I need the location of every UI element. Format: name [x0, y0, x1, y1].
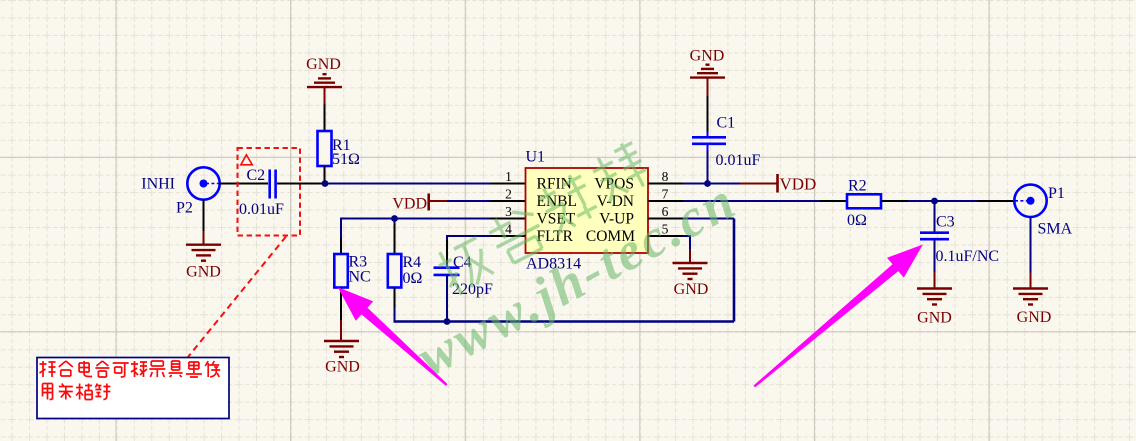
note text line1 char 3	[79, 361, 92, 377]
junction at R1 / C2 node	[322, 180, 329, 187]
svg-text:0.01uF: 0.01uF	[716, 152, 761, 169]
U1 pin number 6	[662, 204, 669, 219]
U1 pin number 2	[505, 186, 512, 201]
U1 pin number 1	[505, 169, 512, 184]
wire VPOS net	[683, 183, 740, 185]
ground GND under P1	[1013, 289, 1048, 305]
R4 value label 0ohm	[403, 270, 423, 287]
note text line1 char 7	[149, 361, 165, 377]
U1 designator label	[526, 149, 546, 166]
ground GND under P2	[186, 245, 221, 261]
callout arrow pointing at C3	[754, 245, 923, 388]
U1 pin 7 lead	[648, 200, 683, 202]
svg-text:NC: NC	[349, 268, 371, 285]
U1 pin name COMM	[586, 228, 635, 245]
wire VSET net (U1 pin 3) to R3/R4	[341, 218, 526, 220]
bottom rail wire to V-UP loop	[394, 219, 735, 322]
C2 value label 0.01uF	[239, 201, 284, 218]
svg-text:R2: R2	[848, 178, 867, 195]
U1 pin number 8	[662, 169, 669, 184]
svg-text:GND: GND	[325, 359, 360, 376]
wire C2 right plate to junction	[277, 183, 325, 185]
svg-text:1: 1	[505, 169, 512, 184]
R2 designator label	[848, 178, 867, 195]
resistor R2	[847, 194, 881, 208]
note text line1 char 4	[95, 361, 109, 377]
note text line2 char 4	[95, 384, 110, 400]
wire P1 stem to ground	[1030, 217, 1032, 289]
C3 value label 0.1uF/NC	[936, 248, 1000, 265]
svg-text:2: 2	[505, 186, 512, 201]
U1 pin name ENBL	[537, 193, 577, 210]
junction at C3 top	[931, 198, 938, 205]
svg-text:8: 8	[662, 169, 669, 184]
C2 designator label	[247, 167, 266, 184]
note text line1 char 10	[205, 361, 220, 377]
U1 part number AD8314	[526, 255, 581, 272]
R4 designator label	[403, 254, 422, 271]
ground GND under C3	[917, 289, 952, 305]
wire GND to R1 top	[324, 87, 326, 131]
svg-text:C2: C2	[247, 167, 266, 184]
wire node to U1 pin 1	[325, 183, 526, 185]
wire V-DN net (U1 pin 7) to R2	[683, 200, 847, 202]
resistor R1	[318, 131, 332, 166]
wire FLTR net (U1 pin 4)	[447, 235, 526, 268]
junction at R4 top	[391, 215, 398, 222]
ground GND above C1 (inverted)	[690, 48, 725, 65]
resistor R4	[388, 254, 402, 288]
C1 value label 0.01uF	[716, 152, 761, 169]
svg-text:V-DN: V-DN	[597, 193, 634, 210]
ground GND above R1 (inverted)	[306, 56, 341, 73]
svg-text:3: 3	[505, 204, 512, 219]
svg-text:VSET: VSET	[537, 210, 576, 227]
svg-text:GND: GND	[674, 281, 709, 298]
note text line2 char 1	[43, 384, 53, 400]
R3 value label NC	[349, 268, 371, 285]
R3 designator label	[349, 253, 368, 270]
U1 pin number 3	[505, 204, 512, 219]
resistor R3	[334, 254, 348, 288]
watermark Chinese character 1	[434, 234, 497, 298]
ground GND at U1 COMM	[673, 263, 708, 279]
callout arrow pointing at R3	[338, 287, 448, 386]
C3 designator label	[936, 213, 955, 230]
wire R1 bottom to junction	[324, 166, 326, 184]
U1 pin 5 lead	[648, 235, 683, 237]
U1 pin name V-UP	[599, 210, 634, 227]
note text line1 char 5	[113, 363, 129, 377]
note text line1 char 1 (Chinese)	[40, 361, 56, 377]
svg-text:INHI: INHI	[141, 176, 175, 193]
svg-text:0Ω: 0Ω	[403, 270, 423, 287]
wire down to R3	[340, 218, 342, 255]
wire R3 bottom to ground	[340, 288, 342, 342]
svg-text:FLTR: FLTR	[537, 228, 574, 245]
wire GND to C1 top	[707, 78, 709, 137]
U1 pin number 4	[505, 221, 512, 236]
C4 value label 220pF	[452, 281, 493, 298]
svg-text:GND: GND	[917, 309, 952, 326]
red triangle marker	[241, 155, 253, 165]
svg-text:GND: GND	[306, 56, 341, 73]
connector P2	[187, 167, 219, 199]
C1 designator label	[717, 114, 736, 131]
svg-text:C3: C3	[936, 213, 955, 230]
connector P1	[1014, 185, 1046, 217]
wire VDD to U1 pin 2	[447, 200, 526, 202]
U1 pin name FLTR	[537, 228, 574, 245]
svg-text:0.1uF/NC: 0.1uF/NC	[936, 248, 1000, 265]
junction at C4 bottom rail	[444, 318, 451, 325]
svg-text:P2: P2	[176, 200, 193, 217]
wire R2 to P1	[881, 200, 1015, 202]
R2 value label 0ohm	[847, 212, 867, 229]
power VDD symbol at U1 pin 2	[392, 194, 447, 213]
svg-text:U1: U1	[526, 149, 546, 166]
watermark Chinese character 4	[588, 139, 653, 204]
wire down to R4	[394, 219, 396, 255]
U1 pin name RFIN	[537, 175, 572, 192]
capacitor C1	[692, 137, 726, 144]
svg-text:SMA: SMA	[1038, 221, 1073, 238]
wire R4 bottom to bottom rail	[394, 288, 396, 322]
svg-text:0Ω: 0Ω	[847, 212, 867, 229]
C4 designator label	[453, 254, 472, 271]
svg-text:GND: GND	[690, 48, 725, 65]
svg-text:C1: C1	[717, 114, 736, 131]
watermark Chinese character 3	[536, 171, 601, 236]
svg-text:GND: GND	[1017, 309, 1052, 326]
capacitor C3	[920, 233, 949, 240]
wire C4 bottom to rail	[446, 275, 448, 322]
P1 type label SMA	[1038, 221, 1073, 238]
U1 pin name VSET	[537, 210, 576, 227]
watermark Chinese character 2	[485, 202, 550, 267]
svg-text:0.01uF: 0.01uF	[239, 201, 284, 218]
svg-text:P1: P1	[1048, 185, 1065, 202]
wire P2 stem to ground	[203, 200, 205, 245]
U1 pin name V-DN	[597, 193, 634, 210]
red dashed highlight box around C2	[238, 148, 301, 236]
U1 pin 8 lead	[648, 183, 683, 185]
svg-text:51Ω: 51Ω	[332, 151, 360, 168]
note text line1 char 6	[131, 361, 147, 377]
red dashed leader line to note box	[188, 237, 286, 358]
wire U1 pin 5 COMM to ground	[683, 235, 690, 263]
capacitor C2	[270, 170, 276, 199]
wire C1 bottom to VPOS net	[707, 144, 709, 184]
note text line2 char 2	[59, 384, 73, 400]
U1 pin 6 lead	[648, 218, 683, 220]
capacitor C4	[434, 268, 460, 275]
op-amp / IC U1 AD8314 body	[526, 168, 649, 253]
wire C3 bottom to ground	[934, 239, 936, 288]
P1 designator label	[1048, 185, 1065, 202]
node INHI label	[141, 176, 175, 193]
note text line1 char 9	[186, 362, 202, 377]
R1 value label 51ohm	[332, 151, 360, 168]
ground GND under R3	[324, 341, 359, 357]
R1 designator label	[332, 137, 351, 154]
junction at C1 / VPOS	[704, 180, 711, 187]
watermark www.jn-tec.cn	[407, 169, 746, 387]
svg-text:GND: GND	[186, 264, 221, 281]
U1 pin name VPOS	[594, 175, 634, 192]
power VDD symbol at VPOS	[740, 174, 816, 194]
wire P2 pin to C2 left plate	[220, 183, 268, 185]
note text line1 char 8	[169, 361, 183, 377]
U1 pin number 5	[662, 221, 669, 236]
svg-text:VDD: VDD	[780, 175, 817, 194]
note text line2 char 3	[76, 384, 92, 400]
note box	[37, 358, 229, 419]
note text line1 char 2	[59, 361, 73, 376]
svg-text:R4: R4	[403, 254, 422, 271]
U1 pin number 7	[662, 186, 669, 201]
wire junction down to C3	[934, 201, 936, 233]
P2 designator label	[176, 200, 193, 217]
svg-text:VDD: VDD	[392, 196, 427, 213]
